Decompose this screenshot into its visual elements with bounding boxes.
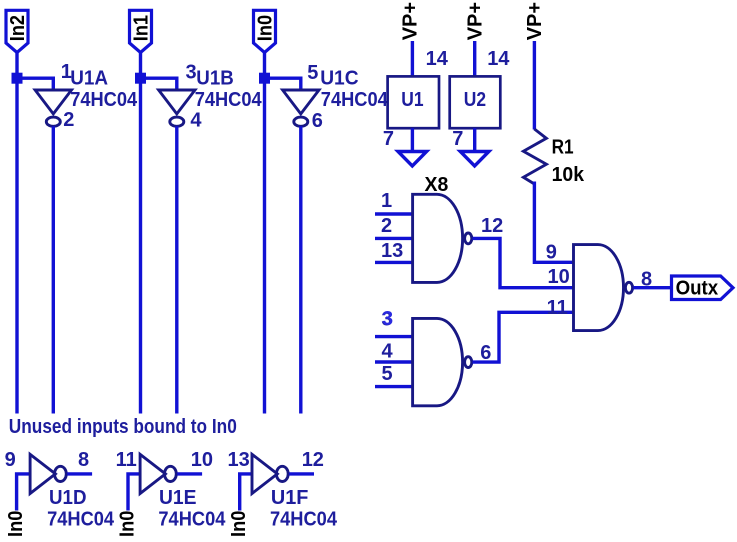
wire VP+ to R1 xyxy=(533,41,536,130)
wire In1 to U1B input xyxy=(141,78,177,91)
U1D bubble xyxy=(55,466,67,481)
node junction In2 xyxy=(12,73,23,84)
svg-text:12: 12 xyxy=(302,449,324,471)
resistor R1 xyxy=(523,129,546,184)
svg-text:In0: In0 xyxy=(5,511,27,537)
nand gate 3 xyxy=(574,245,624,331)
svg-text:3: 3 xyxy=(186,62,197,84)
svg-text:U1A: U1A xyxy=(70,67,108,89)
svg-text:1: 1 xyxy=(381,190,392,212)
svg-text:13: 13 xyxy=(228,449,250,471)
svg-text:10k: 10k xyxy=(552,164,585,186)
nand gate X8 xyxy=(413,194,463,282)
wire pin 1 stub xyxy=(375,212,413,215)
transistor U1B inverter triangle xyxy=(159,90,195,114)
svg-text:11: 11 xyxy=(116,449,137,471)
svg-text:VP+: VP+ xyxy=(465,2,487,40)
svg-text:2: 2 xyxy=(63,109,74,131)
svg-text:U1: U1 xyxy=(401,89,423,111)
transistor U1F inverter triangle xyxy=(252,454,277,493)
svg-text:Unused inputs bound to In0: Unused inputs bound to In0 xyxy=(9,416,237,438)
svg-text:74HC04: 74HC04 xyxy=(70,89,138,111)
wire U1C output xyxy=(299,126,302,413)
wire In1 vertical xyxy=(139,53,142,414)
wire U1D input bend xyxy=(17,474,31,511)
nand gate 2 xyxy=(413,318,463,405)
svg-text:VP+: VP+ xyxy=(524,2,546,40)
svg-text:VP+: VP+ xyxy=(399,2,421,40)
port In0 xyxy=(254,10,277,52)
node junction In1 xyxy=(135,73,146,84)
transistor U1E inverter triangle xyxy=(140,454,165,493)
svg-text:14: 14 xyxy=(426,48,449,70)
gate 3 bubble xyxy=(625,282,632,293)
svg-text:5: 5 xyxy=(307,62,318,84)
wire In2 vertical xyxy=(15,53,18,414)
wire U1E input bend xyxy=(128,474,140,511)
wire VP+ to U1 xyxy=(411,41,414,76)
ground under U1 xyxy=(398,152,427,167)
svg-text:74HC04: 74HC04 xyxy=(321,89,389,111)
ground under U2 xyxy=(460,152,489,167)
gate 2 bubble xyxy=(465,357,472,368)
svg-text:In0: In0 xyxy=(254,15,276,41)
svg-text:6: 6 xyxy=(312,110,323,132)
wire U1F input bend xyxy=(240,474,252,511)
wire U1F output xyxy=(289,472,314,475)
svg-text:7: 7 xyxy=(383,128,394,150)
U1E bubble xyxy=(165,466,177,481)
svg-text:9: 9 xyxy=(546,242,557,264)
svg-text:5: 5 xyxy=(382,363,393,385)
svg-text:4: 4 xyxy=(382,340,394,362)
port In1 xyxy=(130,10,153,52)
wire U1 to ground xyxy=(411,128,414,151)
svg-text:In0: In0 xyxy=(228,511,250,537)
transistor U1D inverter triangle xyxy=(30,454,55,493)
wire R1 to pin 9 xyxy=(534,182,573,263)
wire pin 4 stub xyxy=(375,360,413,363)
svg-text:2: 2 xyxy=(381,215,392,237)
svg-text:U1E: U1E xyxy=(159,487,197,509)
U2 power box xyxy=(450,76,501,128)
svg-text:In1: In1 xyxy=(130,15,152,41)
port Outx xyxy=(672,276,734,300)
svg-text:U2: U2 xyxy=(464,89,486,111)
svg-text:74HC04: 74HC04 xyxy=(158,509,226,531)
wire pin 5 stub xyxy=(375,385,413,388)
wire In0 to U1C input xyxy=(265,78,301,91)
svg-text:U1C: U1C xyxy=(320,67,358,89)
wire U1E output xyxy=(177,472,202,475)
svg-text:In0: In0 xyxy=(116,511,138,537)
svg-text:74HC04: 74HC04 xyxy=(47,509,115,531)
transistor U1A inverter triangle xyxy=(35,90,71,114)
wire gate 3 output to Outx xyxy=(633,286,671,289)
U1C bubble xyxy=(294,117,308,126)
svg-text:4: 4 xyxy=(190,110,202,132)
U1B bubble xyxy=(170,117,184,126)
svg-text:14: 14 xyxy=(487,48,510,70)
transistor U1C inverter triangle xyxy=(283,90,319,114)
svg-text:X8: X8 xyxy=(425,174,449,196)
wire U2 to ground xyxy=(473,128,476,151)
wire VP+ to U2 xyxy=(473,41,476,76)
svg-text:7: 7 xyxy=(452,128,463,150)
wire In0 vertical xyxy=(263,53,266,414)
svg-text:10: 10 xyxy=(548,266,570,288)
X8 bubble xyxy=(465,233,472,244)
svg-text:12: 12 xyxy=(481,215,503,237)
svg-text:3: 3 xyxy=(382,308,393,330)
wire In2 to U1A input xyxy=(17,78,53,91)
U1A bubble xyxy=(46,117,60,126)
wire U1B output xyxy=(175,126,178,413)
wire gate 2 output to pin 11 xyxy=(473,312,574,362)
svg-text:R1: R1 xyxy=(552,136,574,158)
U1F bubble xyxy=(276,466,288,481)
svg-text:U1F: U1F xyxy=(271,487,309,509)
node junction In0 xyxy=(259,73,270,84)
svg-text:9: 9 xyxy=(5,449,16,471)
port In2 xyxy=(6,10,29,52)
svg-text:74HC04: 74HC04 xyxy=(195,89,263,111)
svg-text:U1B: U1B xyxy=(196,67,234,89)
svg-text:Outx: Outx xyxy=(676,278,719,300)
wire U1A output xyxy=(52,126,55,413)
svg-text:13: 13 xyxy=(381,240,403,262)
svg-text:8: 8 xyxy=(78,449,89,471)
wire pin 2 stub xyxy=(375,237,413,240)
svg-text:10: 10 xyxy=(191,449,213,471)
U1 power box xyxy=(388,76,439,128)
wire pin 3 stub xyxy=(375,335,413,338)
svg-text:In2: In2 xyxy=(7,15,29,41)
wire pin 13 stub xyxy=(375,261,413,264)
svg-text:74HC04: 74HC04 xyxy=(270,509,338,531)
wire X8 output to pin 10 xyxy=(473,238,574,287)
svg-text:U1D: U1D xyxy=(49,487,87,509)
wire U1D output xyxy=(67,472,92,475)
svg-text:11: 11 xyxy=(547,297,568,319)
